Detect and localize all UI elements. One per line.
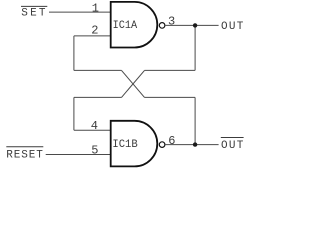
wire bottom-left horizontal of crossover (74, 96, 122, 98)
net label OUT (complement, with overline) (221, 138, 244, 152)
wire top-left horizontal of crossover (74, 69, 122, 71)
nand gate IC1A body (111, 2, 165, 48)
wire SET to pin 1 of IC1A (49, 11, 111, 13)
wire left vertical upper (pin2 drop) (73, 36, 75, 71)
svg-text:6: 6 (168, 134, 175, 148)
wire pin 2 of IC1A to left vertical (74, 35, 111, 37)
wire diagonal bottom-left to top-right (122, 70, 145, 97)
wire top-right horizontal of crossover (145, 69, 196, 71)
net label SET (active-low, with overline) (21, 6, 47, 19)
net label RESET (active-low, with overline) (6, 147, 43, 162)
wire right vertical lower (to /OUT node) (194, 97, 196, 144)
wire left vertical lower (to pin 4) (73, 97, 75, 130)
svg-text:4: 4 (91, 119, 98, 133)
svg-text:1: 1 (92, 2, 99, 16)
svg-text:5: 5 (91, 143, 98, 157)
svg-text:SET: SET (21, 7, 46, 19)
junction node /OUT (193, 142, 197, 146)
wire right vertical upper (to OUT node) (194, 25, 196, 70)
wire pin 6 output to /OUT (166, 144, 219, 146)
wire bottom-right horizontal of crossover (145, 96, 196, 98)
svg-text:OUT: OUT (221, 21, 244, 33)
junction node OUT (193, 23, 197, 27)
svg-text:OUT: OUT (221, 140, 244, 152)
nand gate IC1B body (111, 121, 165, 167)
svg-text:3: 3 (168, 15, 175, 29)
svg-text:RESET: RESET (6, 149, 43, 161)
wire diagonal top-left to bottom-right (122, 70, 145, 97)
svg-text:IC1B: IC1B (112, 139, 138, 151)
wire RESET to pin 5 of IC1B (46, 154, 111, 156)
svg-text:IC1A: IC1A (113, 20, 138, 32)
wire to pin 4 of IC1B (74, 129, 111, 131)
wire pin 3 output to OUT (166, 24, 219, 26)
